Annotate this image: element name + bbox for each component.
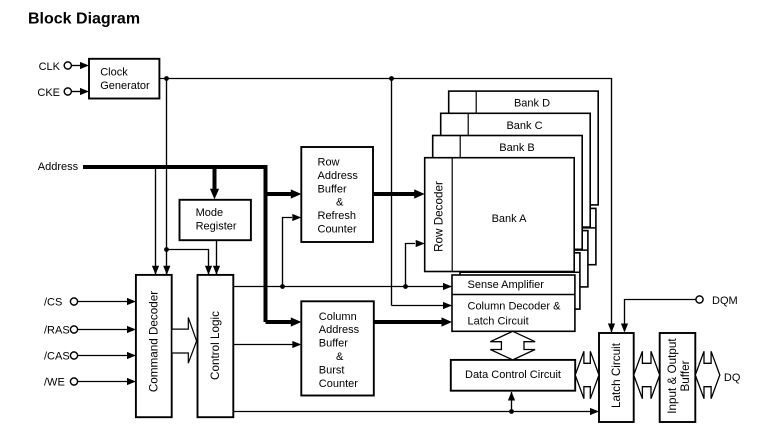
svg-text:Control Logic: Control Logic	[209, 311, 222, 380]
svg-text:Address: Address	[319, 324, 360, 336]
svg-text:Column Decoder &: Column Decoder &	[468, 300, 562, 312]
svg-text:Buffer: Buffer	[679, 360, 692, 391]
svg-text:Bank D: Bank D	[514, 98, 550, 110]
svg-text:Latch Circuit: Latch Circuit	[468, 315, 529, 327]
svg-text:Address: Address	[318, 170, 359, 182]
svg-text:Refresh: Refresh	[318, 210, 357, 222]
svg-text:Row Decoder: Row Decoder	[432, 181, 445, 252]
svg-text:Bank A: Bank A	[492, 213, 528, 225]
svg-text:Register: Register	[196, 221, 237, 233]
svg-text:/CAS: /CAS	[44, 351, 70, 363]
svg-text:Column: Column	[319, 311, 357, 323]
svg-text:Input & Output: Input & Output	[666, 338, 679, 414]
svg-text:Address: Address	[38, 161, 79, 173]
svg-text:DQ: DQ	[724, 372, 741, 384]
svg-text:Buffer: Buffer	[318, 183, 347, 195]
svg-text:DQM: DQM	[712, 295, 738, 307]
svg-text:Counter: Counter	[318, 224, 357, 236]
svg-text:Clock: Clock	[100, 66, 128, 78]
svg-text:Block Diagram: Block Diagram	[28, 11, 140, 28]
svg-text:CLK: CLK	[39, 61, 61, 73]
svg-text:Mode: Mode	[196, 207, 224, 219]
svg-text:Row: Row	[318, 157, 340, 169]
svg-text:Bank C: Bank C	[506, 120, 542, 132]
svg-text:CKE: CKE	[37, 87, 60, 99]
svg-text:Burst: Burst	[319, 364, 345, 376]
svg-text:Bank B: Bank B	[499, 142, 534, 154]
svg-text:Buffer: Buffer	[319, 338, 348, 350]
svg-text:Latch Circuit: Latch Circuit	[610, 342, 623, 408]
svg-text:&: &	[336, 351, 344, 363]
svg-text:Generator: Generator	[100, 80, 150, 92]
svg-text:/WE: /WE	[44, 377, 65, 389]
svg-text:/RAS: /RAS	[44, 325, 70, 337]
svg-text:Data Control Circuit: Data Control Circuit	[465, 369, 561, 381]
svg-text:&: &	[336, 197, 344, 209]
svg-text:Command Decoder: Command Decoder	[147, 291, 160, 392]
svg-text:Sense Amplifier: Sense Amplifier	[468, 279, 545, 291]
svg-text:/CS: /CS	[44, 297, 62, 309]
svg-text:Counter: Counter	[319, 378, 358, 390]
